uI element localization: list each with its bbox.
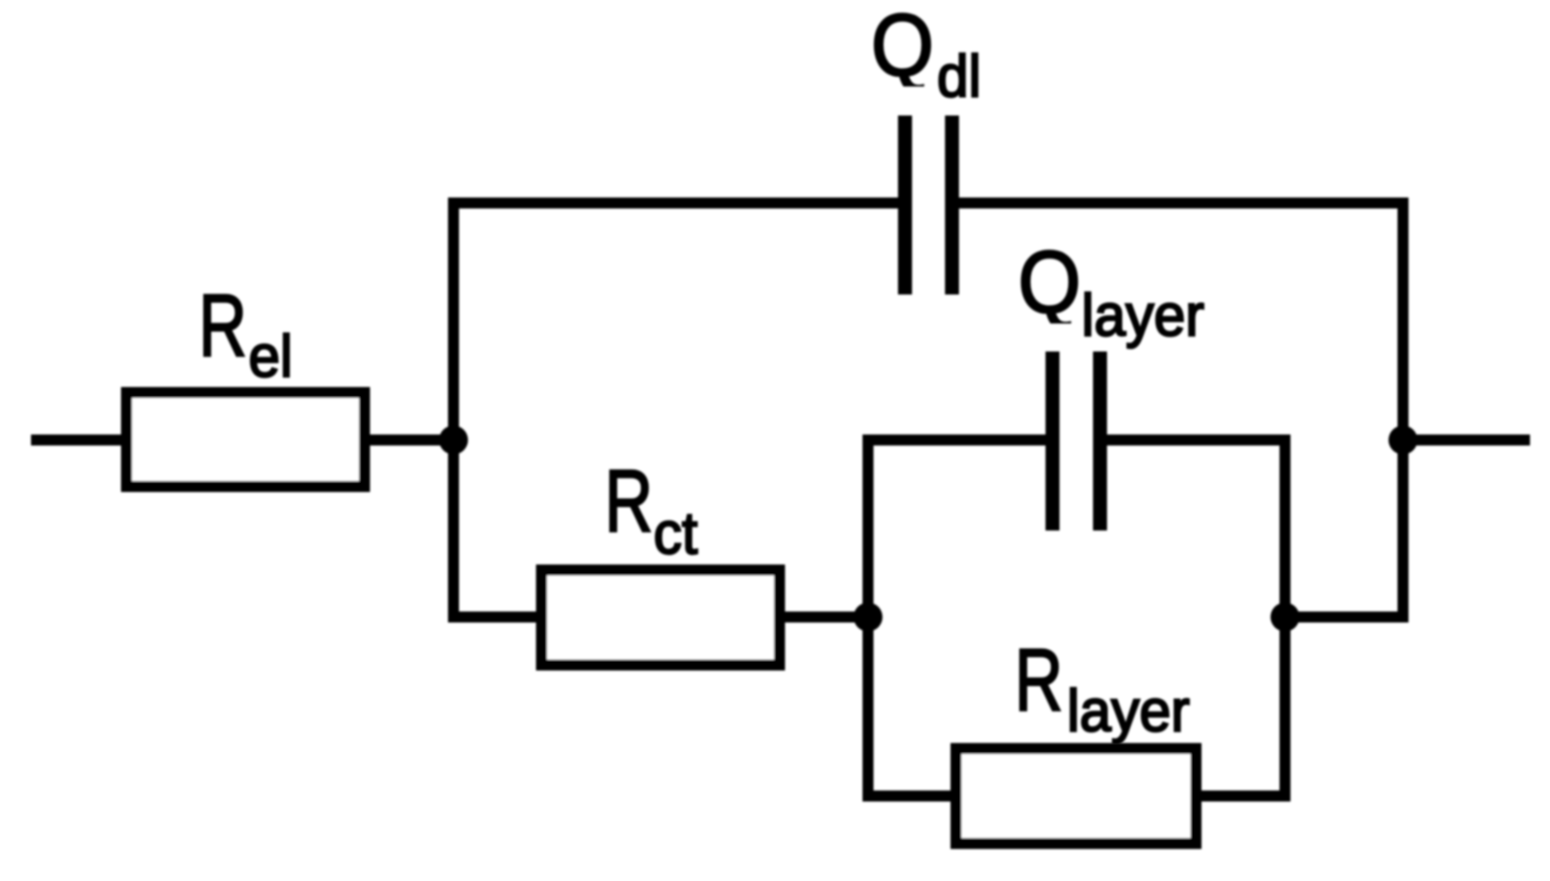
wire: top branch right (Q_dl right plate over and down to node C) [959, 203, 1403, 617]
resistor R_layer [956, 749, 1196, 844]
wire: inner parallel left side (node B up to Q_layer branch, down to R_layer branch) [868, 440, 1046, 796]
svg-text:ct: ct [654, 501, 698, 566]
node C junction dot [1271, 603, 1300, 632]
resistor R_el [127, 393, 365, 487]
wire: top branch left (node A up and over to Q_dl left plate) [454, 203, 899, 617]
svg-text:Q: Q [871, 0, 934, 94]
wire: R_ct to node B [780, 612, 868, 623]
svg-text:R: R [199, 276, 247, 375]
node A junction dot [439, 426, 468, 455]
svg-text:Q: Q [1018, 232, 1081, 331]
capacitor Q_dl right plate [945, 116, 959, 295]
capacitor Q_layer right plate [1093, 352, 1107, 531]
svg-text:el: el [249, 324, 293, 389]
label Q_layer [1018, 232, 1081, 331]
svg-text:R: R [605, 451, 653, 550]
wire: left input lead [31, 435, 128, 446]
wire: inner parallel right side [1107, 440, 1285, 796]
svg-text:R: R [1015, 630, 1063, 729]
node B junction dot [854, 603, 883, 632]
wire: output lead [1403, 435, 1530, 446]
svg-text:dl: dl [937, 44, 981, 109]
resistor R_ct [542, 570, 780, 665]
capacitor Q_layer left plate [1046, 352, 1060, 531]
svg-text:layer: layer [1082, 283, 1205, 348]
svg-text:layer: layer [1067, 679, 1190, 744]
node D junction dot [1389, 426, 1418, 455]
label Q_dl [871, 0, 934, 94]
capacitor Q_dl left plate [898, 116, 912, 295]
wire: R_el to node A [365, 435, 455, 446]
